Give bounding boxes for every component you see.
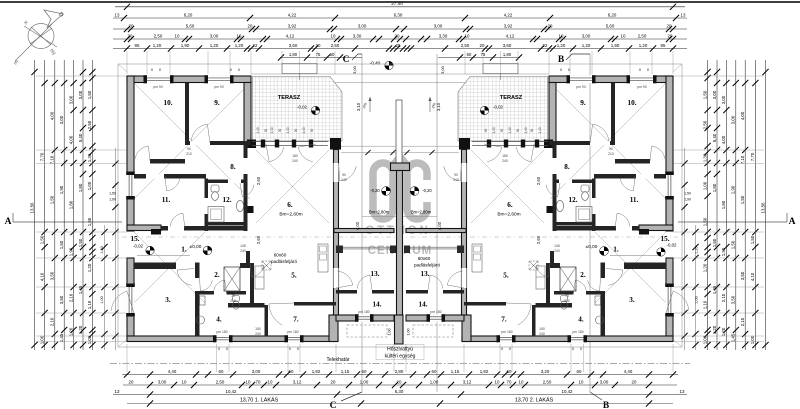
svg-text:11.: 11. [162, 196, 171, 204]
svg-text:5,60: 5,60 [606, 23, 615, 28]
svg-text:1,45: 1,45 [59, 333, 64, 342]
interior wall 10|9 [185, 83, 189, 142]
svg-text:10: 10 [465, 33, 470, 38]
svg-text:10: 10 [175, 33, 180, 38]
svg-text:pm 180: pm 180 [430, 310, 441, 314]
svg-text:210: 210 [186, 152, 192, 156]
svg-text:4,10: 4,10 [750, 272, 755, 281]
svg-text:240: 240 [502, 159, 508, 163]
bathroom 4 fixtures [233, 296, 240, 302]
top dimension row 4 [113, 38, 687, 40]
svg-text:pm 180: pm 180 [216, 330, 227, 334]
svg-text:Hőszivattyú: Hőszivattyú [387, 347, 413, 353]
unit center-side wall [462, 150, 467, 317]
svg-text:60: 60 [330, 52, 335, 57]
svg-text:Bm=2,60m: Bm=2,60m [279, 212, 302, 218]
svg-text:1,20: 1,20 [712, 325, 717, 334]
hall top wall [553, 226, 639, 231]
svg-text:2,50: 2,50 [87, 120, 92, 129]
rear wall face line across center [251, 82, 549, 84]
room 12 bottom wall [553, 222, 596, 226]
witness lines bottom [126, 344, 128, 372]
svg-text:5.: 5. [291, 272, 297, 280]
svg-text:1,10: 1,10 [87, 300, 92, 309]
svg-text:30: 30 [264, 129, 268, 133]
svg-text:1,40: 1,40 [508, 127, 512, 133]
svg-text:8: 8 [639, 68, 641, 72]
svg-text:60: 60 [467, 52, 472, 57]
svg-text:Bm=2,80m: Bm=2,80m [369, 210, 390, 215]
interior wall 5 left [250, 263, 254, 305]
svg-text:1,82: 1,82 [480, 369, 489, 374]
svg-text:90: 90 [609, 147, 613, 151]
svg-text:padlásfeljáró: padlásfeljáró [414, 263, 440, 268]
room 12 top wall [208, 180, 244, 184]
top dimension row 2 [113, 17, 687, 19]
connector wall shaft to 5 [240, 263, 250, 268]
svg-text:1,40: 1,40 [302, 127, 306, 133]
svg-text:1,90: 1,90 [59, 185, 64, 194]
section line B vertical [589, 54, 591, 392]
svg-text:1,40: 1,40 [286, 127, 290, 133]
svg-text:20: 20 [480, 43, 485, 48]
svg-text:4,00: 4,00 [355, 221, 360, 230]
svg-text:60: 60 [432, 369, 437, 374]
svg-text:C: C [330, 401, 337, 409]
svg-text:3,00: 3,00 [434, 23, 443, 28]
svg-text:20: 20 [632, 379, 637, 384]
roof overhang outline [118, 64, 682, 347]
svg-text:8: 8 [226, 347, 228, 351]
hall closet line [610, 255, 663, 257]
svg-text:2,50: 2,50 [331, 43, 340, 48]
svg-text:1,80: 1,80 [503, 52, 512, 57]
svg-text:pm 90: pm 90 [576, 85, 586, 89]
svg-text:1,20: 1,20 [100, 246, 104, 253]
svg-text:60x60: 60x60 [274, 253, 287, 258]
svg-text:2,60: 2,60 [536, 176, 541, 185]
bathroom 4 fixtures [561, 296, 568, 302]
exterior left lower wall [666, 258, 673, 336]
svg-text:3,00: 3,00 [600, 379, 609, 384]
svg-text:8: 8 [647, 68, 649, 72]
svg-text:1,20: 1,20 [68, 327, 73, 336]
interior wall right of 2 [246, 251, 250, 264]
svg-text:4,22: 4,22 [288, 12, 297, 17]
svg-text:210: 210 [564, 299, 570, 303]
duct shaft room 2 [224, 267, 240, 291]
svg-text:1,90: 1,90 [109, 198, 116, 202]
svg-text:1,50: 1,50 [39, 235, 44, 244]
svg-text:C: C [343, 55, 350, 65]
hall top wall [161, 226, 247, 231]
svg-text:70: 70 [507, 379, 512, 384]
porch edge wall [334, 229, 394, 233]
svg-text:22: 22 [543, 43, 548, 48]
svg-text:10: 10 [331, 33, 336, 38]
center bottom wall [462, 315, 471, 342]
svg-text:1,50: 1,50 [87, 90, 92, 99]
duct shaft room 2 [560, 267, 576, 291]
svg-text:1,50: 1,50 [109, 192, 116, 196]
svg-text:3,00: 3,00 [352, 65, 357, 74]
svg-text:4,12: 4,12 [506, 33, 515, 38]
svg-text:1,50: 1,50 [702, 217, 707, 226]
svg-text:6,30: 6,30 [394, 12, 403, 17]
section line C mirror vertical [436, 54, 438, 392]
svg-text:1,50: 1,50 [702, 90, 707, 99]
svg-text:240: 240 [554, 249, 560, 253]
interior wall 3|2 [601, 263, 606, 337]
living room glass wall with mullions [472, 141, 548, 143]
svg-text:8: 8 [572, 347, 574, 351]
kitchen counter right [472, 244, 482, 272]
svg-text:5,60: 5,60 [186, 23, 195, 28]
svg-text:14.: 14. [419, 301, 428, 309]
svg-text:1,00: 1,00 [388, 329, 392, 336]
interior wall 11|12 [205, 179, 209, 232]
witness lines right [673, 75, 764, 77]
porch top wall [639, 225, 673, 231]
svg-text:13: 13 [115, 389, 120, 394]
svg-text:3,00: 3,00 [721, 95, 726, 104]
svg-text:1,40: 1,40 [538, 127, 542, 133]
svg-text:11.: 11. [630, 196, 639, 204]
svg-text:12.: 12. [223, 196, 232, 204]
svg-text:TERASZ: TERASZ [278, 95, 301, 101]
svg-text:3,12: 3,12 [293, 379, 302, 384]
svg-text:60: 60 [219, 369, 224, 374]
roof hip diagonals left unit [118, 64, 329, 347]
svg-text:pm 90: pm 90 [214, 85, 224, 89]
right unit geometry (mirrored) [404, 75, 689, 342]
interior wall 5 left [546, 263, 550, 305]
svg-text:3,50: 3,50 [740, 271, 745, 280]
room 13 threshold to porch [406, 246, 462, 248]
svg-text:3,50: 3,50 [50, 271, 55, 280]
svg-text:60: 60 [362, 369, 367, 374]
svg-text:6,20: 6,20 [184, 12, 193, 17]
svg-text:13,70 2. LAKÁS: 13,70 2. LAKÁS [515, 397, 554, 404]
room 12 top wall [557, 180, 593, 184]
svg-text:20: 20 [397, 379, 402, 384]
svg-text:A: A [789, 217, 796, 227]
top dimension row 27,40 [115, 6, 685, 8]
svg-text:10: 10 [519, 379, 524, 384]
svg-text:10: 10 [495, 379, 500, 384]
svg-text:2.: 2. [580, 271, 586, 279]
interior wall top of 3 [601, 263, 666, 270]
svg-text:padlásfeljáró: padlásfeljáró [271, 259, 297, 264]
svg-text:6.: 6. [507, 201, 513, 209]
svg-text:13.: 13. [371, 270, 380, 278]
svg-text:-0,20: -0,20 [370, 188, 380, 193]
svg-text:90: 90 [342, 173, 346, 177]
svg-text:8.: 8. [230, 163, 236, 171]
svg-text:1,20: 1,20 [721, 327, 726, 336]
telekhatar property line [110, 363, 690, 365]
svg-text:20: 20 [331, 379, 336, 384]
svg-text:1,00: 1,00 [87, 335, 92, 344]
entrance step right [483, 64, 518, 74]
section line A horizontal right [678, 221, 787, 223]
svg-text:20: 20 [129, 23, 134, 28]
svg-text:3,50: 3,50 [731, 295, 736, 304]
svg-text:14.: 14. [373, 301, 382, 309]
svg-text:150: 150 [539, 327, 545, 331]
svg-text:pm 90: pm 90 [637, 85, 647, 89]
rear eave line across center [251, 73, 549, 75]
left dimension columns [34, 60, 36, 350]
svg-text:1,00: 1,00 [407, 329, 411, 336]
roof hip diagonals right unit [471, 64, 682, 347]
svg-text:25: 25 [396, 43, 401, 48]
center wall 13|14 [443, 290, 464, 294]
svg-text:10.: 10. [628, 99, 637, 107]
center wall 13|14 [336, 290, 357, 294]
svg-text:20: 20 [129, 379, 134, 384]
svg-text:20: 20 [395, 33, 400, 38]
room 13 threshold to porch [338, 246, 394, 248]
svg-text:kültéri egység: kültéri egység [385, 354, 416, 360]
living room glass wall with mullions [252, 141, 328, 143]
svg-text:B: B [603, 401, 610, 409]
svg-text:12.: 12. [569, 196, 578, 204]
bottom dimension row 3 [113, 394, 687, 396]
svg-text:Bm=2,80m: Bm=2,80m [411, 210, 432, 215]
heat pump outdoor unit left [347, 325, 387, 337]
svg-text:20: 20 [548, 23, 553, 28]
svg-text:1.: 1. [181, 246, 187, 254]
unit center-side wall [334, 150, 339, 317]
section line C vertical [361, 54, 363, 392]
svg-text:±0,00: ±0,00 [190, 244, 202, 249]
heat pump outdoor unit right [413, 325, 453, 337]
svg-text:3,00: 3,00 [440, 65, 445, 74]
interior wall 5|7 [464, 302, 506, 306]
svg-text:240: 240 [255, 332, 261, 336]
svg-text:1,82: 1,82 [312, 369, 321, 374]
shaft wall below duct [228, 303, 265, 308]
svg-text:3,00: 3,00 [59, 115, 64, 124]
kitchen counter right [318, 244, 328, 272]
canopy edge lines across center [341, 145, 459, 147]
svg-text:8: 8 [580, 347, 582, 351]
svg-text:1,90: 1,90 [611, 43, 620, 48]
svg-text:240: 240 [292, 159, 298, 163]
svg-text:2,10: 2,10 [721, 293, 726, 302]
interior wall 11|12 [592, 179, 596, 232]
svg-text:3,00: 3,00 [252, 369, 261, 374]
interior wall below 9 [185, 141, 251, 145]
svg-text:9.: 9. [214, 99, 220, 107]
watermark Otthon Centrum logo [373, 163, 427, 219]
glass wall end post [459, 138, 470, 150]
svg-text:1,50: 1,50 [712, 238, 717, 247]
svg-text:13,56: 13,56 [760, 202, 765, 214]
svg-text:4,40: 4,40 [168, 369, 177, 374]
svg-text:pm 180: pm 180 [501, 330, 512, 334]
svg-text:5,40: 5,40 [712, 133, 717, 142]
svg-text:1,00: 1,00 [39, 335, 44, 344]
svg-text:1,00: 1,00 [702, 335, 707, 344]
svg-text:1,80: 1,80 [721, 200, 726, 209]
svg-text:1,90: 1,90 [731, 185, 736, 194]
svg-text:-0,02: -0,02 [666, 243, 677, 248]
svg-text:1,15: 1,15 [451, 369, 460, 374]
bottom dimension row 4 lakás [127, 403, 673, 405]
svg-text:1,00: 1,00 [100, 296, 104, 303]
svg-text:3,60: 3,60 [503, 43, 512, 48]
svg-text:75: 75 [316, 52, 321, 57]
interior wall right of 12 [553, 145, 557, 231]
svg-text:TERASZ: TERASZ [500, 95, 523, 101]
svg-text:-0,20: -0,20 [422, 188, 432, 193]
door arcs [191, 124, 207, 141]
svg-text:210: 210 [608, 152, 614, 156]
svg-text:75: 75 [231, 294, 235, 298]
shaft wall below duct [536, 303, 573, 308]
svg-text:1,50: 1,50 [50, 195, 55, 204]
svg-text:2,50: 2,50 [216, 379, 225, 384]
svg-text:-0,02: -0,02 [493, 105, 504, 110]
svg-text:-0,40: -0,40 [370, 61, 381, 66]
svg-text:1,50: 1,50 [750, 235, 755, 244]
svg-text:30: 30 [500, 129, 504, 133]
top dimension row 3 [113, 28, 687, 30]
svg-text:10: 10 [579, 379, 584, 384]
hall closet line [137, 255, 190, 257]
svg-text:3.: 3. [165, 296, 171, 304]
svg-text:20: 20 [668, 33, 673, 38]
svg-text:240: 240 [539, 332, 545, 336]
left unit geometry [111, 75, 396, 342]
svg-text:1,20: 1,20 [235, 43, 244, 48]
interior wall 4|7 [265, 305, 269, 336]
svg-text:±0,00: ±0,00 [586, 244, 598, 249]
svg-text:1,50: 1,50 [684, 192, 691, 196]
svg-text:90: 90 [454, 173, 458, 177]
svg-text:2,50: 2,50 [638, 33, 647, 38]
svg-text:2.: 2. [214, 271, 220, 279]
svg-text:3,00: 3,00 [358, 23, 367, 28]
svg-text:95: 95 [661, 43, 666, 48]
party wall T-cap [391, 163, 410, 171]
svg-text:10: 10 [246, 379, 251, 384]
svg-text:2,60: 2,60 [536, 235, 541, 244]
svg-text:145: 145 [240, 244, 246, 248]
svg-text:10: 10 [621, 33, 626, 38]
svg-text:20: 20 [667, 23, 672, 28]
interior wall top of 11 [594, 174, 666, 179]
svg-text:1,50: 1,50 [78, 238, 83, 247]
svg-text:1,00: 1,00 [695, 296, 699, 303]
svg-text:8: 8 [509, 347, 511, 351]
svg-text:8: 8 [151, 68, 153, 72]
svg-text:10: 10 [182, 379, 187, 384]
svg-text:10.: 10. [164, 99, 173, 107]
svg-text:2,80: 2,80 [395, 369, 404, 374]
svg-text:1,30: 1,30 [702, 153, 707, 162]
near-building dim columns [104, 225, 106, 350]
svg-text:8: 8 [501, 347, 503, 351]
svg-text:1,90: 1,90 [181, 43, 190, 48]
svg-text:2,50: 2,50 [154, 33, 163, 38]
svg-text:7,70: 7,70 [750, 152, 755, 161]
interior wall 2|4 [195, 291, 246, 295]
svg-text:1,00: 1,00 [360, 379, 369, 384]
glass wall end post [330, 138, 341, 150]
svg-text:8: 8 [297, 347, 299, 351]
svg-text:1,45: 1,45 [78, 285, 83, 294]
interior wall 3|2 [195, 263, 200, 337]
svg-text:240: 240 [453, 178, 459, 182]
top dimension row 6 (1,80 75 60) [280, 57, 362, 59]
svg-text:10: 10 [268, 379, 273, 384]
svg-text:75: 75 [481, 52, 486, 57]
svg-text:4,10: 4,10 [39, 272, 44, 281]
bedroom 9 right wall / terrace edge [244, 83, 251, 146]
svg-text:1,20: 1,20 [210, 43, 219, 48]
attic access 60x60 [529, 261, 538, 270]
section line A horizontal left [13, 221, 122, 223]
svg-text:1,20: 1,20 [582, 43, 591, 48]
svg-text:22: 22 [253, 43, 258, 48]
svg-text:pm 180: pm 180 [287, 330, 298, 334]
exterior bottom wall [462, 336, 673, 342]
porch top wall [127, 225, 161, 231]
exterior left wall [127, 76, 134, 231]
exterior left lower wall [127, 258, 134, 336]
svg-text:3,60: 3,60 [289, 43, 298, 48]
svg-text:8: 8 [289, 347, 291, 351]
center bottom wall [329, 315, 338, 342]
party wall bottom stub [395, 315, 404, 344]
svg-text:2,50: 2,50 [543, 379, 552, 384]
svg-text:1,50: 1,50 [59, 240, 64, 249]
svg-text:3,30: 3,30 [439, 33, 448, 38]
svg-text:3,92: 3,92 [288, 23, 297, 28]
svg-text:2,10: 2,10 [68, 293, 73, 302]
party wall upper thin outline [396, 100, 402, 163]
connector wall shaft to 5 [550, 263, 560, 268]
svg-text:1,20: 1,20 [153, 43, 162, 48]
svg-text:95: 95 [135, 43, 140, 48]
svg-text:-0,02: -0,02 [297, 105, 308, 110]
terrace right (hatched) [458, 77, 548, 142]
bedroom 9 right wall / terrace edge [549, 83, 556, 146]
svg-text:4,00: 4,00 [437, 221, 442, 230]
svg-text:1,50: 1,50 [731, 240, 736, 249]
svg-text:1,20: 1,20 [702, 263, 707, 272]
svg-text:1,90: 1,90 [721, 247, 726, 256]
svg-text:10,42: 10,42 [226, 389, 238, 394]
top dimension row 5 [113, 48, 687, 50]
svg-text:1,40: 1,40 [270, 127, 274, 133]
svg-text:3,00: 3,00 [712, 90, 717, 99]
svg-text:1,50: 1,50 [87, 217, 92, 226]
svg-text:1,90: 1,90 [684, 198, 691, 202]
svg-text:3,00: 3,00 [68, 95, 73, 104]
interior wall 4|7 [532, 305, 536, 336]
svg-text:27,40: 27,40 [391, 1, 403, 6]
svg-text:2,10: 2,10 [740, 317, 745, 326]
svg-text:8.: 8. [564, 163, 570, 171]
svg-text:75: 75 [565, 294, 569, 298]
svg-text:10: 10 [237, 33, 242, 38]
svg-text:7,70: 7,70 [39, 152, 44, 161]
interior wall 5|7 [294, 302, 336, 306]
